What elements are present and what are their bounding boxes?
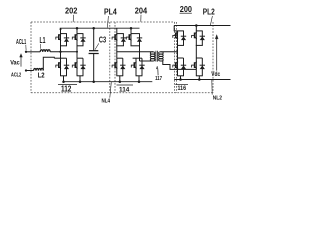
transistor Q2 (112 upper-right) IGBT [72, 34, 77, 41]
svg-text:117: 117 [155, 76, 162, 82]
wire C3 top branch [93, 28, 95, 50]
wire Q9 (116 upper-left) bottom rung [177, 44, 184, 46]
wire Q6 (114 upper-right) left branch [130, 34, 132, 46]
capacitor C3 top plate [89, 50, 98, 52]
wire Q5 (114 upper-left) top rung [116, 33, 123, 35]
wire ACL2 line [26, 70, 34, 72]
wire Q5 (114 upper-left) left branch [116, 34, 118, 46]
wire Q3 (112 lower-left) diode branch [66, 58, 68, 76]
bracket line 116 [175, 84, 188, 86]
inductor L1 [40, 50, 50, 52]
svg-text:202: 202 [65, 6, 78, 15]
wire L2 riser to leg A lower rung [43, 57, 54, 70]
wire Q10 (116 upper-right) tap from positive rail [195, 26, 197, 31]
arrow 117 shaft [157, 69, 159, 76]
wire Q4 (112 lower-right) top rung [77, 57, 83, 59]
underline 200 [180, 12, 192, 14]
wire Q8 (114 lower-right) left branch [135, 58, 137, 76]
leader line L1 [40, 44, 42, 49]
leader line C3 [95, 43, 99, 49]
diode Q7 (114 lower-left) freewheel diode [120, 65, 125, 69]
leader line 204 [140, 15, 142, 22]
wire Q5 (114 upper-left) diode branch [122, 34, 124, 46]
wire Q8 (114 lower-right) bottom rung [136, 75, 143, 77]
svg-text:L1: L1 [40, 36, 46, 45]
wire Q3 (112 lower-left) tap to negative rail [63, 76, 65, 82]
transistor Q11 (116 lower-left) IGBT [173, 62, 178, 69]
wire Q10 (116 upper-right) bottom rung [196, 44, 203, 46]
transistor Q4 (112 lower-right) IGBT [72, 62, 77, 69]
wire Q9 (116 upper-left) left branch [177, 31, 179, 46]
transistor Q1 (112 upper-left) IGBT [56, 34, 61, 41]
box 112 right dashed edge [109, 22, 111, 93]
circuit schematic: power conversion device 200 (patent figure) [0, 0, 232, 120]
wire Q7 (114 lower-left) bottom rung [116, 75, 123, 77]
transformer 117 primary winding [150, 52, 155, 54]
svg-text:C3: C3 [99, 36, 107, 45]
diode Q3 (112 lower-left) freewheel diode [64, 65, 69, 69]
bracket line 114 [117, 84, 134, 86]
node Q8 (114 lower-right) rail junction [138, 80, 141, 83]
wire Q12 (116 lower-right) top rung [196, 57, 202, 59]
svg-text:114: 114 [119, 86, 130, 93]
wire Q9 (116 upper-left) diode branch [183, 31, 185, 46]
wire Q7 (114 lower-left) left branch [116, 58, 118, 76]
arrow Vdc head [215, 35, 218, 39]
transformer 117 core line 1 [155, 51, 157, 62]
wire Q1 (112 upper-left) bottom rung [60, 45, 67, 47]
wire Q4 (112 lower-right) tap to negative rail [79, 76, 81, 82]
node C3 negative rail junction [92, 80, 95, 83]
svg-text:Vdc: Vdc [211, 71, 220, 78]
wire Q3 (112 lower-left) left branch [60, 58, 62, 76]
wire Q12 (116 lower-right) diode branch [201, 58, 203, 76]
node Q1 rail corner [60, 28, 62, 30]
node Q3 (112 lower-left) rail junction [62, 80, 65, 83]
wire Q6 (114 upper-right) top rung [131, 33, 140, 35]
wire Q12 (116 lower-right) tap to negative rail [198, 76, 200, 80]
capacitor C3 bottom plate [89, 53, 99, 55]
transistor Q9 (116 upper-left) IGBT [173, 32, 178, 39]
svg-text:NL4: NL4 [102, 99, 111, 105]
svg-text:ACL2: ACL2 [11, 72, 21, 78]
svg-text:112: 112 [61, 84, 72, 93]
terminal ACL2 [25, 69, 27, 71]
bracket line 112 [58, 84, 77, 86]
transistor Q10 (116 upper-right) IGBT [192, 32, 197, 39]
wire Q1 (112 upper-left) tap from positive rail [60, 28, 62, 33]
transistor Q3 (112 lower-left) IGBT [56, 62, 61, 69]
wire Q11 (116 lower-left) bottom rung [177, 75, 184, 77]
wire leg B midpoint vertical [76, 46, 78, 58]
wire Q11 (116 lower-left) left branch [177, 58, 179, 76]
wire Q3 (112 lower-left) top rung [54, 57, 66, 59]
wire positive rail PL2 [174, 25, 230, 27]
diode Q4 (112 lower-right) freewheel diode [80, 65, 85, 69]
arrow Vac head [20, 54, 23, 58]
wire 114 leg A midpoint vertical [116, 46, 118, 58]
node Q10 rail tap [195, 24, 198, 27]
wire Q2 (112 upper-right) bottom rung [77, 45, 84, 47]
wire L1 to leg B midpoint [50, 51, 77, 53]
wire Q10 (116 upper-right) top rung [196, 30, 203, 32]
svg-text:116: 116 [178, 85, 187, 92]
svg-text:PL4: PL4 [104, 7, 117, 17]
wire ACL1 line [26, 51, 40, 53]
wire 116 leg A midpoint vertical [177, 45, 179, 58]
wire secondary top to 116 leg A [160, 51, 177, 53]
wire Q1 (112 upper-left) top rung [60, 33, 67, 35]
wire Q10 (116 upper-right) diode branch [201, 31, 203, 46]
wire negative rail NL4 (left/middle) [63, 81, 153, 83]
wire Q9 (116 upper-left) tap from positive rail [173, 26, 175, 31]
transformer 117 core line 2 [156, 51, 158, 62]
wire Q5 (114 upper-left) tap from positive rail [116, 28, 118, 33]
svg-text:L2: L2 [38, 70, 45, 79]
wire Q4 (112 lower-right) bottom rung [77, 75, 84, 77]
terminal ACL1 [25, 51, 27, 53]
box converter enclosures top dashed edge [31, 21, 175, 23]
wire Q8 (114 lower-right) top rung [133, 57, 142, 59]
leader line NL4 [110, 82, 112, 97]
diode Q9 (116 upper-left) freewheel diode [181, 36, 186, 40]
wire Q2 (112 upper-right) diode branch [82, 34, 84, 46]
node leg B midpoint junction [76, 51, 78, 53]
wire Q11 (116 lower-left) diode branch [183, 58, 185, 76]
wire Q8 (114 lower-right) diode branch [141, 58, 143, 76]
wire Q12 (116 lower-right) bottom rung [196, 75, 203, 77]
leader line NL2 [211, 80, 213, 95]
svg-text:200: 200 [180, 5, 193, 14]
diode Q10 (116 upper-right) freewheel diode [200, 36, 205, 40]
diode Q8 (114 lower-right) freewheel diode [139, 65, 144, 69]
wire Q7 (114 lower-left) diode branch [122, 58, 124, 76]
diode Q6 (114 upper-right) freewheel diode [137, 38, 142, 42]
transistor Q6 (114 upper-right) IGBT [126, 34, 131, 41]
wire Q6 (114 upper-right) diode branch [139, 34, 141, 46]
leader line ACL1 [25, 45, 27, 50]
wire secondary bottom to 116 leg B [160, 61, 196, 69]
node Q7 (114 lower-left) rail junction [119, 80, 122, 83]
wire primary bottom (leg B to transformer) [140, 60, 154, 62]
node Q6 rail tap [130, 27, 133, 30]
diode Q5 (114 upper-left) freewheel diode [121, 38, 126, 42]
wire Q4 (112 lower-right) left branch [76, 58, 78, 76]
wire Q9 (116 upper-left) top rung [174, 30, 184, 32]
leader line PL2 [210, 16, 212, 25]
box 116 right dashed edge [212, 22, 214, 93]
box 116 left dashed edge [176, 22, 178, 93]
transistor Q12 (116 lower-right) IGBT [192, 62, 197, 69]
inductor L2 [34, 68, 44, 70]
wire Q7 (114 lower-left) top rung [117, 57, 123, 59]
node L1 line crossing leg A [59, 51, 61, 53]
box 114 left dashed edge [114, 22, 116, 93]
svg-text:NL2: NL2 [213, 96, 222, 102]
svg-text:PL2: PL2 [203, 7, 215, 17]
wire Q1 (112 upper-left) diode branch [66, 34, 68, 46]
wire Q11 (116 lower-left) tap to negative rail [180, 76, 182, 80]
wire Q11 (116 lower-left) top rung [178, 57, 184, 59]
leader line 202 [72, 15, 74, 22]
svg-text:Vac: Vac [10, 59, 20, 66]
box 112 left dashed edge [30, 22, 32, 93]
wire Q5 (114 upper-left) bottom rung [116, 45, 124, 47]
arrow Vdc shaft [216, 38, 218, 70]
box 114 right dashed edge [174, 22, 176, 93]
diode Q11 (116 lower-left) freewheel diode [181, 65, 186, 69]
node Q11 (116 lower-left) rail junction [179, 78, 182, 81]
svg-text:204: 204 [135, 6, 148, 15]
wire C3 bottom branch [93, 54, 95, 82]
wire primary top (leg A to transformer) [117, 51, 153, 53]
diode Q12 (116 lower-right) freewheel diode [200, 65, 205, 69]
transistor Q8 (114 lower-right) IGBT [131, 62, 136, 69]
wire Q2 (112 upper-right) top rung [77, 33, 84, 35]
wire 116 leg B midpoint vertical [195, 45, 197, 58]
wire Q4 (112 lower-right) diode branch [82, 58, 84, 76]
node Q2 rail tap [76, 27, 79, 30]
wire Q1 (112 upper-left) left branch [60, 34, 62, 46]
wire positive rail PL4 (left/middle) [60, 27, 140, 29]
wire Q3 (112 lower-left) bottom rung [60, 75, 67, 77]
wire leg A midpoint vertical [60, 46, 62, 58]
node Q12 (116 lower-right) rail junction [198, 78, 201, 81]
arrow Vac shaft [20, 57, 22, 67]
transistor Q7 (114 lower-left) IGBT [112, 62, 117, 69]
wire 114 leg B midpoint vertical [139, 46, 141, 61]
leader line PL4 [107, 16, 108, 28]
wire Q8 (114 lower-right) tap to negative rail [138, 76, 140, 82]
node C3 positive rail junction [92, 27, 95, 30]
diode Q2 (112 upper-right) freewheel diode [80, 38, 85, 42]
wire Q2 (112 upper-right) left branch [76, 34, 78, 46]
wire Q6 (114 upper-right) bottom rung [131, 45, 141, 47]
node Q4 (112 lower-right) rail junction [79, 80, 82, 83]
box enclosures bottom dashed edge [31, 92, 213, 94]
diode Q1 (112 upper-left) freewheel diode [64, 38, 69, 42]
wire Q7 (114 lower-left) tap to negative rail [119, 76, 121, 82]
wire Q2 (112 upper-right) tap from positive rail [76, 28, 78, 33]
transformer 117 secondary winding [159, 52, 164, 54]
wire Q12 (116 lower-right) left branch [195, 58, 197, 76]
wire negative rail NL2 [174, 79, 230, 81]
svg-text:ACL1: ACL1 [16, 39, 26, 46]
wire Q6 (114 upper-right) tap from positive rail [130, 28, 132, 33]
transistor Q5 (114 upper-left) IGBT [112, 34, 117, 41]
arrow 117 head [156, 66, 157, 69]
wire Q10 (116 upper-right) left branch [195, 31, 197, 46]
